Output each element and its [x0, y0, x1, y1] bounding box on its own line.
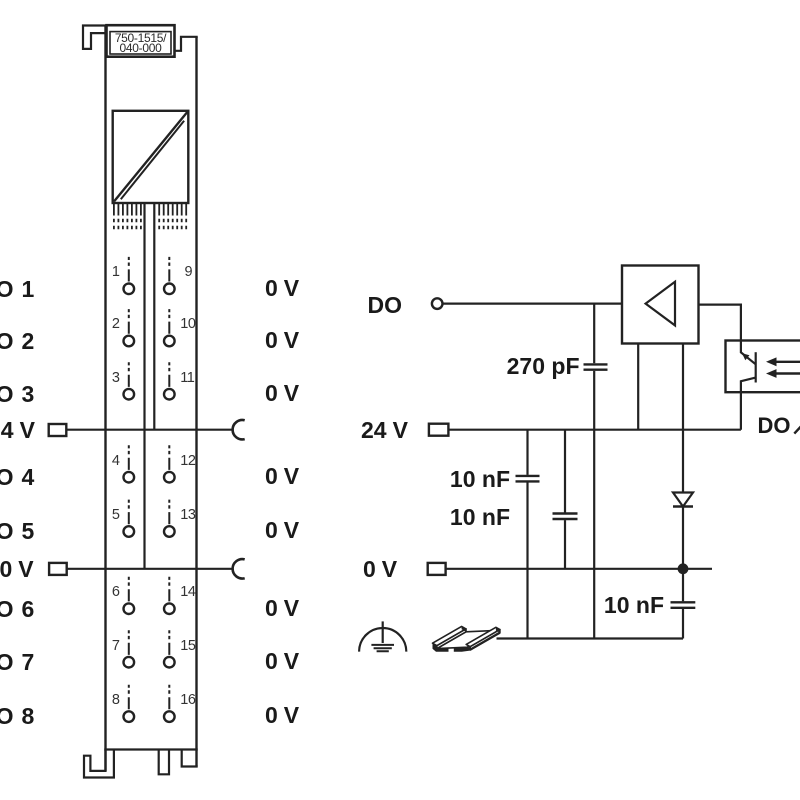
- 24V rail wire (schematic): [448, 429, 741, 431]
- label 0 V row 8: [265, 703, 299, 727]
- wire: driver right leg down to diode: [682, 344, 684, 493]
- capacitor C1 270pF plates: [584, 364, 608, 369]
- label 0 V (module feed): [0, 557, 34, 581]
- wire: DO input to driver: [443, 303, 622, 305]
- pin number 16: [180, 693, 195, 708]
- 0V feed terminal (module): [49, 563, 67, 575]
- pin number 9: [185, 265, 193, 280]
- label 10 nF C2: [450, 467, 510, 491]
- wire: module right wall: [195, 37, 197, 767]
- diode D1: [673, 493, 693, 507]
- electronics block pin header left group: [114, 203, 141, 229]
- internal 0V bus line: [143, 203, 145, 569]
- pin number 10: [180, 317, 195, 332]
- contact pin 1: [124, 257, 135, 294]
- capacitor C1 270pF upper lead: [593, 304, 595, 364]
- electronics block pin header right group: [159, 203, 186, 229]
- driver block U1: [622, 266, 699, 344]
- pin number 3: [112, 371, 120, 386]
- optocoupler box U2: [726, 341, 800, 393]
- label DO 3: [0, 382, 34, 406]
- label 0 V row 1: [265, 276, 299, 300]
- 24V spring clamp contact: [233, 420, 245, 439]
- contact pin 3: [124, 362, 135, 399]
- 0V terminal (schematic): [428, 563, 446, 575]
- label 0 V row 6: [265, 596, 299, 620]
- label 0 V row 5: [265, 518, 299, 542]
- pin number 14: [180, 585, 195, 600]
- electronics block main diagonal: [114, 112, 187, 202]
- label DO 4: [0, 465, 34, 489]
- contact pin 15: [164, 630, 175, 667]
- label 0 V row 7: [265, 649, 299, 673]
- 0V spring clamp contact: [233, 559, 245, 578]
- label 0 V row 4: [265, 464, 299, 488]
- optocoupler transistor base bar: [755, 352, 757, 382]
- label 10 nF C3: [450, 505, 510, 529]
- pin number 1: [112, 265, 120, 280]
- label DO (schematic input): [368, 293, 403, 317]
- label DO 5: [0, 519, 34, 543]
- contact pin 10: [164, 309, 175, 346]
- pin number 7: [112, 639, 120, 654]
- label 270 pF: [507, 354, 580, 378]
- wire: driver output to optocoupler collector: [699, 305, 756, 365]
- 24V terminal (schematic): [429, 424, 449, 436]
- capacitor C3 10nF (24V to 0V): [553, 430, 578, 569]
- electronics block U0: [113, 111, 189, 203]
- light arrow 2: [766, 369, 800, 378]
- label 24 V (module, clipped): [0, 418, 35, 442]
- 24V feed wire (module): [66, 429, 232, 431]
- label 0 V row 3: [265, 381, 299, 405]
- contact pin 7: [124, 630, 135, 667]
- junction dot at 0V rail: [678, 563, 689, 574]
- module top-right step edge: [175, 37, 198, 51]
- contact pin 9: [164, 257, 175, 294]
- module bottom edge: [104, 748, 197, 750]
- contact pin 6: [124, 577, 135, 614]
- wire: diode to 0V junction: [682, 507, 684, 569]
- earth bus wire: [497, 637, 684, 639]
- pin number 15: [180, 639, 195, 654]
- bottom right mounting foot: [182, 750, 198, 767]
- wire: module left wall: [104, 26, 106, 771]
- label 0 V row 2: [265, 328, 299, 352]
- part number label box inner: [110, 32, 171, 54]
- DIN rail symbol: [433, 626, 501, 651]
- wire: driver left leg to 24V rail: [637, 344, 639, 430]
- contact pin 5: [124, 500, 135, 537]
- label DO 6: [0, 597, 34, 621]
- bottom middle mounting foot: [159, 750, 169, 775]
- 0V rail wire (schematic): [446, 568, 712, 570]
- pin number 11: [180, 371, 194, 386]
- pin number 12: [180, 454, 195, 469]
- contact pin 12: [164, 445, 175, 482]
- functional earth symbol: [359, 621, 406, 651]
- 0V feed wire (module): [67, 568, 233, 570]
- optocoupler emitter to 24V rail: [741, 378, 756, 430]
- optocoupler collector arrowhead: [742, 353, 750, 360]
- label 0 V (schematic): [363, 557, 397, 581]
- label DO (schematic output): [758, 414, 791, 438]
- pin number 2: [112, 317, 120, 332]
- bottom-left mounting foot: [84, 750, 114, 778]
- contact pin 13: [164, 500, 175, 537]
- contact pin 8: [124, 685, 135, 722]
- electronics block second diagonal: [121, 121, 184, 199]
- capacitor C1 270pF lower lead to earth bus: [593, 371, 595, 639]
- pin number 4: [112, 454, 120, 469]
- internal 24V bus line: [153, 203, 155, 430]
- label DO 7: [0, 650, 34, 674]
- capacitor C2 10nF (24V to earth): [516, 430, 540, 639]
- contact pin 14: [164, 577, 175, 614]
- top mounting latch: [83, 26, 107, 49]
- driver triangle symbol: [646, 282, 675, 326]
- DO input terminal circle: [432, 298, 443, 309]
- 24V feed terminal (module): [49, 424, 67, 436]
- DO output arrow mark (clipped): [794, 426, 800, 434]
- label 24 V (schematic): [361, 418, 408, 442]
- pin number 6: [112, 585, 120, 600]
- label DO 1: [0, 277, 34, 301]
- contact pin 11: [164, 362, 175, 399]
- pin number 5: [112, 508, 120, 523]
- pin number 13: [180, 508, 195, 523]
- label DO 2: [0, 329, 34, 353]
- contact pin 2: [124, 309, 135, 346]
- label DO 8: [0, 704, 34, 728]
- part number label box outer: [107, 25, 175, 57]
- light arrow 1: [766, 357, 800, 366]
- pin number 8: [112, 693, 120, 708]
- part number label text: [107, 33, 174, 55]
- contact pin 16: [164, 685, 175, 722]
- label 10 nF C4: [604, 593, 664, 617]
- contact pin 4: [124, 445, 135, 482]
- capacitor C4 10nF (0V to earth): [671, 569, 696, 639]
